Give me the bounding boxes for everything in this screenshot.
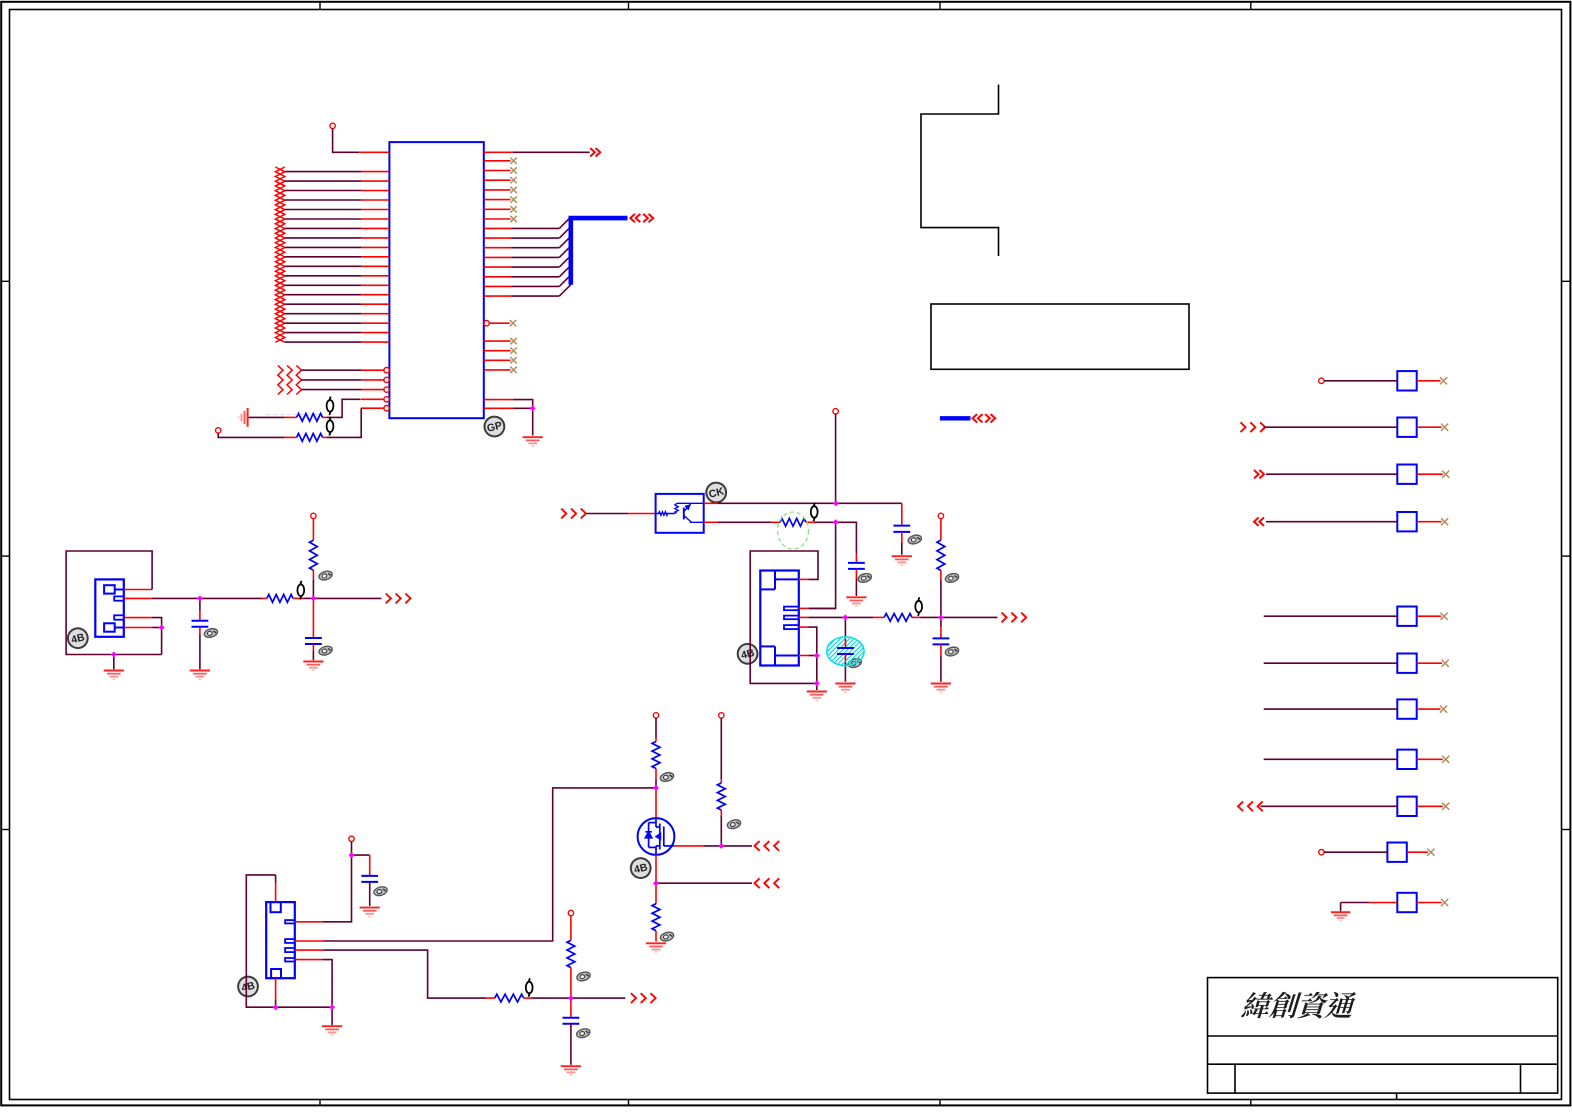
J3 pin4 wire: [295, 959, 323, 961]
designator eye R9: [659, 931, 674, 943]
power node VCC4: [938, 513, 943, 518]
resistor R3 (DNI): [780, 518, 806, 526]
U1 right pin 1 wire: [484, 151, 513, 153]
junction: [197, 595, 203, 601]
ground: [892, 556, 912, 565]
designator eye R8: [726, 818, 741, 830]
J3 pin2 wire: [295, 940, 323, 942]
ground: [561, 1066, 581, 1075]
test pad TP1: [1397, 371, 1416, 390]
J2 pin wire (row 1): [799, 607, 809, 609]
designator eye C8: [576, 1027, 591, 1039]
capacitor C5: [837, 647, 854, 649]
ground: [104, 671, 124, 680]
designator eye C3: [203, 627, 218, 639]
capacitor C1: [893, 525, 910, 527]
connector J1 internals: [104, 585, 124, 632]
designator eye C1: [907, 534, 922, 546]
input arrows: [1238, 801, 1263, 811]
J3 pin1 wire: [295, 921, 323, 923]
ground: [360, 908, 380, 917]
designator circle Q1: [629, 856, 653, 880]
junction: [814, 680, 820, 686]
J3 bottom pin wire: [275, 978, 277, 1000]
U1 left pin wires (19): [285, 172, 390, 343]
junction: [111, 652, 117, 658]
connector J1 body: [95, 579, 124, 636]
designator eye R4: [318, 570, 333, 582]
designator eye C7: [373, 885, 388, 897]
designator mark: [915, 597, 922, 616]
data bus: [571, 218, 628, 285]
resistor R4: [310, 540, 318, 570]
wire: [571, 997, 626, 999]
junction: [653, 785, 659, 791]
wire: [312, 570, 314, 580]
J1 pin2 wire: [124, 597, 152, 599]
wire: [327, 408, 361, 437]
power node VCC7: [719, 713, 724, 718]
company logo text (CJK glyph outlines): [1241, 992, 1356, 1019]
wire: [855, 569, 857, 579]
ground: [322, 1026, 342, 1035]
J1 pin4 wire: [124, 627, 153, 629]
U1 left circle-pin wires (3): [302, 369, 362, 371]
junction: [718, 843, 724, 849]
wire emitter net down to J2 pin 2: [809, 522, 836, 608]
wire: [312, 644, 314, 651]
junction: [349, 852, 355, 858]
wire: [570, 998, 572, 1017]
wire: [199, 627, 201, 634]
wire to C1: [836, 502, 902, 504]
pin stub with NC mark: [1417, 473, 1443, 475]
J3 pin3 wire: [295, 949, 324, 951]
wire: [901, 532, 903, 543]
designator mark: [327, 417, 334, 436]
capacitor C8: [563, 1017, 580, 1019]
power node: [1319, 378, 1324, 383]
wire: [249, 416, 285, 418]
wire: [1324, 851, 1387, 853]
ground: [646, 943, 666, 952]
capacitor C5 (over highlight): [837, 647, 854, 649]
capacitor C2: [848, 562, 865, 564]
stray dashed mark: [266, 413, 321, 415]
ground: [523, 437, 543, 446]
junction: [653, 880, 659, 886]
capacitor C4 branch: [312, 598, 314, 637]
test pad TP11: [1397, 893, 1416, 912]
power node VCC2: [216, 428, 221, 433]
capacitor C4: [305, 637, 322, 639]
wire: [1264, 615, 1398, 617]
designator circle U2: [704, 480, 728, 504]
connector J2 body: [760, 571, 799, 666]
input arrows: [1241, 422, 1266, 432]
wire: [844, 654, 846, 661]
wire: [940, 571, 942, 581]
J1 pin1 loop wire: [124, 589, 152, 591]
resistor R10: [495, 994, 524, 1002]
bus arrows: [630, 214, 640, 222]
resistor squiggle column RP1: [275, 167, 284, 342]
wire: [655, 788, 657, 818]
sheet note rectangle: [931, 304, 1189, 369]
power node VCC1: [330, 123, 335, 128]
test pad TP7: [1397, 699, 1416, 718]
ground: [190, 671, 210, 680]
designator mark: [297, 581, 304, 600]
wire: [816, 656, 818, 684]
resistor R9: [652, 904, 660, 931]
U1 bottom-right pins to ground: [484, 399, 514, 401]
pin stub with NC mark: [1417, 708, 1441, 710]
ground: [807, 692, 827, 701]
U1 right circle NC pin: [484, 321, 489, 326]
wire: [655, 718, 657, 737]
pin stub with NC mark: [1417, 426, 1442, 428]
ground: [1331, 903, 1350, 921]
wire: [1341, 902, 1370, 904]
wire: [587, 513, 629, 515]
junction: [568, 995, 574, 1001]
wire: [656, 882, 752, 884]
designator mark: [327, 397, 334, 416]
U1 bus pins (8): [484, 227, 512, 229]
pin stub with NC mark: [1407, 851, 1428, 853]
wire: [161, 628, 163, 655]
wire: [1264, 758, 1398, 760]
wire to C2: [836, 522, 857, 553]
J1 pin3 wire: [124, 617, 152, 619]
junction: [310, 595, 316, 601]
wire: [570, 968, 572, 999]
junction: [329, 1004, 335, 1010]
resistor R7: [652, 742, 660, 769]
designator eye C2: [857, 572, 872, 584]
U1 right NC pins group 1: [484, 160, 511, 162]
wire: [313, 597, 381, 599]
designator circle J3: [236, 974, 260, 998]
ground (rotated) for R1: [239, 408, 248, 427]
junction: [814, 653, 820, 659]
resistor R2 leads: [285, 436, 297, 438]
pin stub with NC mark: [1417, 758, 1443, 760]
junction: [159, 625, 165, 631]
pin stub with NC mark: [1417, 521, 1442, 523]
ground: [303, 662, 323, 671]
wire: [845, 616, 873, 618]
resistor R2: [297, 434, 323, 442]
ground: [931, 684, 951, 693]
wire: [312, 519, 314, 541]
wire: [570, 1024, 572, 1065]
junction: [833, 519, 839, 525]
U1 left circle pins 4-5 stubs: [361, 398, 384, 400]
J2 pin wire (row 2): [799, 616, 809, 618]
ground: [835, 684, 855, 693]
designator circle J2: [736, 642, 760, 666]
pin stub with NC mark: [1417, 380, 1441, 382]
test pad TP3: [1397, 465, 1416, 484]
test pad TP8: [1397, 750, 1416, 769]
connector J3 internals: [271, 902, 295, 978]
designator circle J1: [66, 626, 90, 650]
wire: [369, 882, 371, 906]
designator eye R7: [659, 771, 674, 783]
wire: [218, 433, 285, 437]
output arrows: [386, 594, 411, 604]
pin stub with NC mark: [1417, 615, 1441, 617]
U2 collector pin wire: [704, 502, 718, 504]
sheet note step line: [921, 85, 999, 257]
wire: [655, 931, 657, 942]
resistor squiggle group RP2 (3 strands): [278, 365, 283, 394]
input arrows: [561, 509, 586, 519]
resistor R1: [297, 414, 323, 422]
J2 pin wire (row 3) and bottom pin to ground: [799, 626, 809, 628]
wire: [721, 845, 752, 847]
wire: [1261, 805, 1398, 807]
designator mark: [526, 978, 533, 997]
wire: [655, 883, 657, 904]
DNI ellipse: [778, 512, 809, 549]
test pad TP6: [1397, 654, 1416, 673]
resistor R6: [937, 540, 945, 571]
resistor R11: [567, 940, 575, 967]
wire: [327, 399, 361, 417]
power node VCC9: [568, 910, 573, 915]
wire: [1264, 708, 1398, 710]
test pad TP2: [1397, 418, 1416, 437]
wire: [1266, 473, 1397, 475]
capacitor C7: [361, 875, 378, 877]
U2 emitter pin wire: [704, 521, 718, 523]
power node VCC8: [349, 836, 354, 841]
wire: [351, 842, 353, 856]
capacitor C5 branch: [844, 617, 846, 640]
test pad TP5: [1397, 607, 1416, 626]
resistor R5: [884, 614, 912, 622]
wire: [940, 617, 942, 627]
designator eye C5: [847, 657, 862, 669]
pin stub with NC mark: [1417, 805, 1443, 807]
wire: [835, 414, 837, 503]
wire: [941, 616, 998, 618]
resistor R8: [717, 783, 725, 810]
Q1 source wire: [655, 855, 657, 882]
designator eye R6: [944, 572, 959, 584]
power node VCC5: [311, 513, 316, 518]
wire: [1264, 426, 1398, 428]
designator circle U1: [482, 414, 506, 438]
wire: [1264, 662, 1398, 664]
J3 top feed wire: [246, 875, 332, 1007]
U1 right NC pins group 2: [484, 340, 511, 342]
wire: [1324, 380, 1397, 382]
test pad TP9: [1397, 797, 1416, 816]
junction: [530, 405, 536, 411]
power node VCC6: [653, 713, 658, 718]
Q1 gate wire: [674, 845, 704, 847]
capacitor C3 branch: [199, 598, 201, 610]
pin stub U1 top-left: [359, 151, 389, 153]
wire: [331, 1007, 333, 1025]
pin stub: [628, 513, 656, 515]
input arrows: [755, 841, 780, 851]
wire: [113, 655, 115, 670]
junction: [938, 614, 944, 620]
connector J3 body: [266, 902, 295, 978]
wire: [532, 408, 534, 435]
wire: [940, 644, 942, 655]
designator eye C4: [318, 645, 333, 657]
wire: [655, 769, 657, 781]
MOSFET Q1: [638, 818, 675, 855]
J2 top pin wire: [799, 578, 809, 580]
input arrows: [755, 878, 780, 888]
junction: [842, 614, 848, 620]
capacitor C6: [933, 637, 950, 639]
wire: [333, 129, 360, 153]
wire: [570, 916, 572, 941]
wire: [720, 718, 722, 779]
wire: [200, 597, 262, 599]
resistor R1 leads: [285, 416, 297, 418]
input arrow: [1254, 518, 1264, 526]
capacitor C3: [192, 620, 209, 622]
ground: [846, 597, 866, 606]
test pad TP4: [1397, 512, 1416, 531]
optocoupler U2 internals: [656, 503, 704, 522]
optocoupler U2 body: [656, 494, 704, 533]
pin stub with NC mark: [1417, 902, 1442, 904]
power node: [1319, 850, 1324, 855]
designator eye R11: [576, 971, 591, 983]
power node VCC3: [833, 409, 838, 414]
output arrows: [1002, 613, 1027, 623]
wire: [816, 683, 818, 690]
short bus segment with arrows: [940, 416, 971, 420]
wire: [1266, 521, 1397, 523]
connector J2 internals: [760, 571, 799, 666]
designator mark: [811, 503, 818, 522]
junction: [273, 1004, 279, 1010]
input arrow: [1254, 470, 1264, 478]
junction: [833, 500, 839, 506]
wire: [720, 810, 722, 816]
output arrows: [631, 993, 656, 1003]
IC U1 body: [389, 142, 483, 418]
title block: [1208, 978, 1558, 1100]
resistor R13: [267, 595, 293, 603]
designator eye C6: [944, 646, 959, 658]
test pad TP10: [1387, 843, 1406, 862]
wire: [940, 519, 942, 540]
off-page arrow: [590, 148, 600, 156]
wire: [352, 854, 370, 856]
pin stub with NC mark: [1417, 662, 1443, 664]
